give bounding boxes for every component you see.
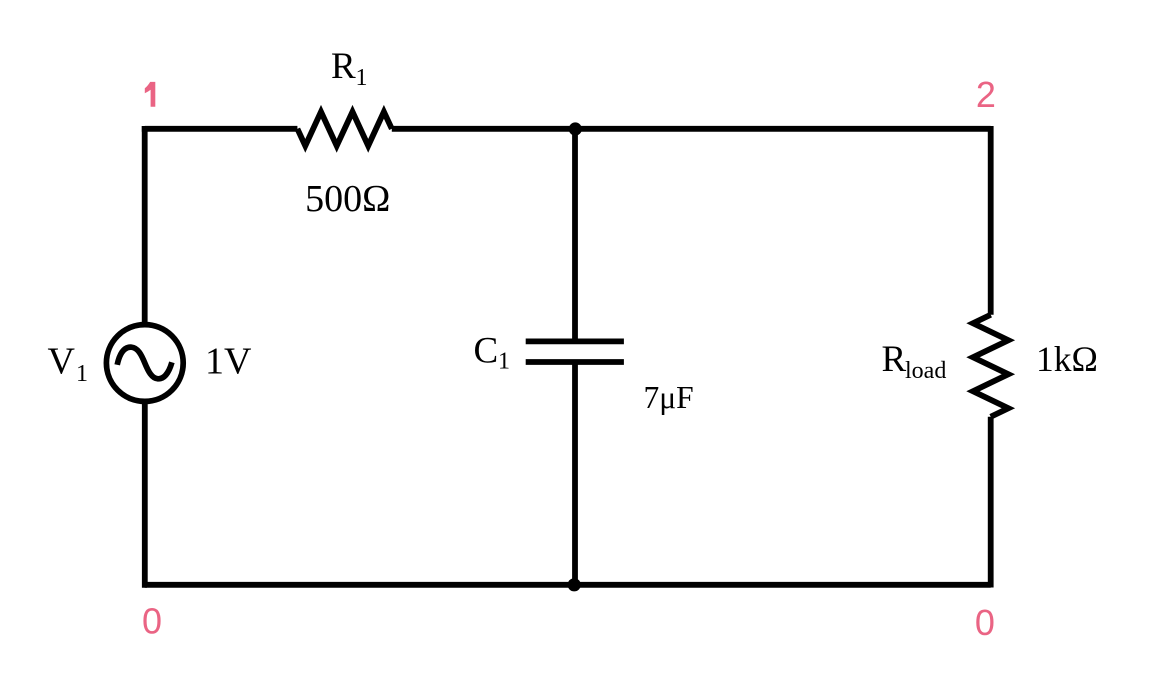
svg-text:2: 2 <box>976 74 996 115</box>
svg-text:R: R <box>882 339 907 380</box>
wire capacitor branch top <box>572 127 578 342</box>
svg-text:0: 0 <box>975 602 995 643</box>
svg-text:1: 1 <box>76 361 88 387</box>
svg-text:1: 1 <box>356 65 368 91</box>
wire capacitor branch bottom <box>572 362 578 585</box>
wire left vertical top <box>142 126 148 325</box>
junction node 2 dot <box>569 122 582 135</box>
resistor R1 <box>297 112 391 146</box>
svg-text:1: 1 <box>498 348 510 374</box>
capacitor C1 top plate <box>526 338 624 344</box>
junction node 0 dot <box>568 578 581 591</box>
wire right vertical top <box>988 126 994 315</box>
capacitor C1 bottom plate <box>526 359 624 365</box>
node 1 label <box>145 82 156 107</box>
wire top rail left segment <box>145 126 298 129</box>
svg-text:1kΩ: 1kΩ <box>1036 339 1098 379</box>
wire top rail right segment <box>392 126 991 132</box>
voltage source V1 sine <box>117 347 172 379</box>
svg-text:0: 0 <box>142 601 162 642</box>
svg-text:7μF: 7μF <box>644 380 694 415</box>
wire bottom rail <box>145 582 991 588</box>
svg-text:load: load <box>905 358 946 384</box>
svg-text:R: R <box>331 46 356 87</box>
svg-text:V: V <box>48 341 76 383</box>
resistor Rload zigzag <box>973 315 1008 417</box>
voltage source V1 circle <box>106 325 183 402</box>
wire right vertical bottom <box>988 417 994 588</box>
svg-text:1V: 1V <box>205 341 252 383</box>
svg-text:C: C <box>474 330 499 371</box>
svg-text:500Ω: 500Ω <box>305 178 390 220</box>
wire left vertical bottom <box>145 401 147 585</box>
